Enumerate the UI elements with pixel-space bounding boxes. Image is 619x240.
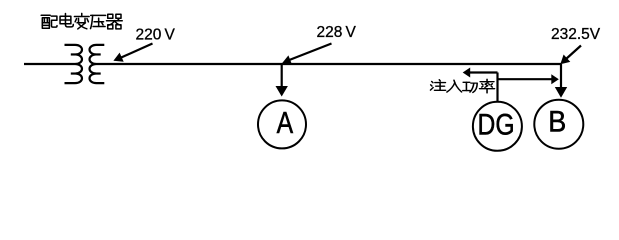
- load node A: [258, 100, 306, 148]
- wire: DG connection stub: [496, 73, 498, 102]
- arrow: DG output into node B junction: [498, 78, 553, 80]
- transformer T1 secondary winding: [90, 45, 105, 83]
- wire: drop from feeder to load A: [281, 64, 283, 88]
- svg-text:DG: DG: [478, 108, 515, 141]
- arrowhead into load B: [555, 87, 567, 98]
- load node B: [534, 100, 583, 149]
- wire: drop from feeder junction to load B: [560, 64, 562, 89]
- label 配电变压器 (distribution transformer): [41, 15, 57, 28]
- wire: main feeder bus from transformer to node B junction: [97, 63, 562, 65]
- svg-text:228 V: 228 V: [317, 24, 357, 41]
- arrow pointing to feeder at node B junction: [566, 46, 581, 60]
- distributed generator DG: [473, 102, 522, 151]
- transformer T1 primary winding: [65, 45, 82, 83]
- arrow pointing to feeder at node A junction: [288, 44, 332, 61]
- svg-text:B: B: [548, 105, 566, 138]
- label 注入功率 (injected power): [430, 80, 445, 91]
- arrowhead into load A: [276, 86, 288, 97]
- svg-text:220 V: 220 V: [136, 26, 176, 43]
- svg-text:A: A: [277, 106, 294, 140]
- arrow: injected power flowing left along feeder: [469, 71, 498, 73]
- wire: left feeder lead: [24, 63, 75, 65]
- arrow pointing to feeder at 220V measurement point: [119, 44, 153, 59]
- svg-text:232.5V: 232.5V: [551, 26, 601, 43]
